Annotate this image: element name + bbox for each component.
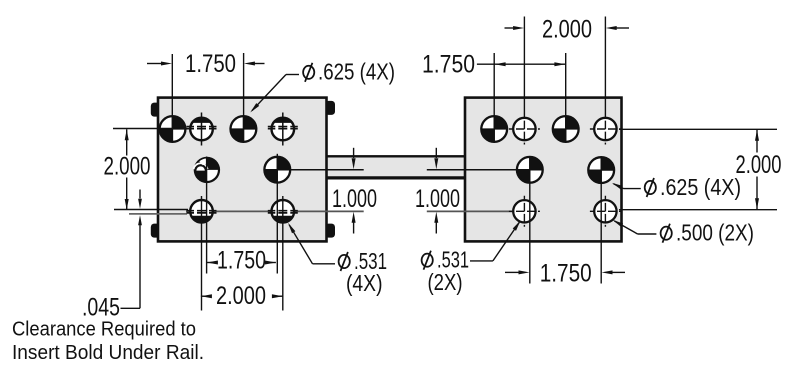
hole bolt left plate top-inner [187,118,217,141]
center line hole2 vertical [201,113,203,146]
dimension 1.750 bottom-right [505,260,625,288]
extension line x206 from middle hole [206,157,208,274]
hole D.500 right plate top-4 [590,114,621,145]
extension line x277 from middle hole [276,154,278,274]
hole with button screw left plate middle-left [194,157,220,183]
rail center line right [427,169,530,171]
hole D.531 left plate bottom-left [187,200,217,223]
extension line x565 [565,53,567,143]
svg-text:2.000: 2.000 [104,153,151,181]
dimension 2.000 top [505,16,630,44]
svg-text:1.750: 1.750 [185,50,236,78]
extension line x172 [171,54,173,143]
dimension 1.750 top-right [422,50,566,78]
hole bolt left plate top-outer [268,118,298,141]
hole D.625 right plate top-3 [553,116,579,142]
label D.500 (2X) with leader [613,220,755,246]
svg-text:2.000: 2.000 [216,282,266,310]
extension line x243 [243,53,245,143]
hole D.625 left plate middle-right [264,157,290,183]
svg-text:1.000: 1.000 [332,185,377,213]
hole D.531 left plate bottom-right [268,200,298,223]
extension line x201 below plate [201,196,203,311]
extension line x529 right plate [529,156,531,283]
left plate ear bottom-right [325,224,335,238]
hole D.625 right plate middle-right [588,157,614,183]
rail center line left [277,169,363,171]
svg-text:1.750: 1.750 [217,247,266,275]
dimension 2.000 bottom-left [201,282,283,310]
hole D.625 left plate top-left [160,116,186,142]
rail between plates [320,156,472,178]
dimension 1.750 top-left [147,50,265,78]
extension line y129 right [619,128,777,130]
svg-text:(4X): (4X) [346,270,383,296]
label D.625 (4X) right with leader [612,174,741,200]
label D.531 (4X) with leader [288,223,387,296]
dimension 1.750 bottom-left [207,247,276,275]
dimension 1.000 left [332,148,377,234]
label D.531 (2X) with leader [422,221,521,296]
hole D.625 right plate middle-left [517,157,543,183]
dashed hole row line left [129,211,364,214]
dimension 1.000 right [415,148,460,234]
svg-text:.045: .045 [82,294,120,322]
dashed hole row line right [427,210,514,212]
note: clearance required text [12,319,204,364]
svg-text:2.000: 2.000 [736,151,782,179]
left plate ear top-right [325,101,335,115]
extension line x524 [523,17,525,114]
center line hole4 vertical [282,113,284,146]
hole D.500 right plate top-2 [509,114,540,145]
hole D.531 right plate bottom-left [509,196,540,227]
hole D.531 right plate bottom-right [590,196,621,227]
hole D.625 left plate top-right [231,116,257,142]
bolt clearance line left [114,209,188,211]
left plate ear top-left [151,103,161,117]
svg-text:1.750: 1.750 [422,50,475,78]
right plate [465,98,622,242]
svg-text:Clearance Required to: Clearance Required to [12,319,196,341]
dimension 2.000 right vertical [736,130,782,209]
extension line y128 left [113,128,187,130]
hole D.625 right plate top-1 [481,116,507,142]
svg-text:1.750: 1.750 [540,260,592,288]
label D.625 (4X) top-left with leader [250,59,395,113]
svg-text:.625 (4X): .625 (4X) [318,59,395,85]
extension line x605 [604,17,606,114]
extension line x494 [493,53,495,143]
svg-text:2.000: 2.000 [542,16,592,44]
dimension 2.000 left vertical [104,129,151,210]
left plate [158,98,327,242]
extension line y209 right [619,209,777,211]
svg-text:Insert Bold Under Rail.: Insert Bold Under Rail. [12,342,204,364]
svg-text:.625 (4X): .625 (4X) [660,174,741,200]
svg-text:.500 (2X): .500 (2X) [676,220,754,246]
svg-text:(2X): (2X) [428,269,463,295]
left plate ear bottom-left [151,224,161,238]
dimension .045 clearance [82,190,142,322]
extension line x282 below plate [282,196,284,311]
svg-text:1.000: 1.000 [415,185,460,213]
extension line x601 right plate [600,157,602,284]
